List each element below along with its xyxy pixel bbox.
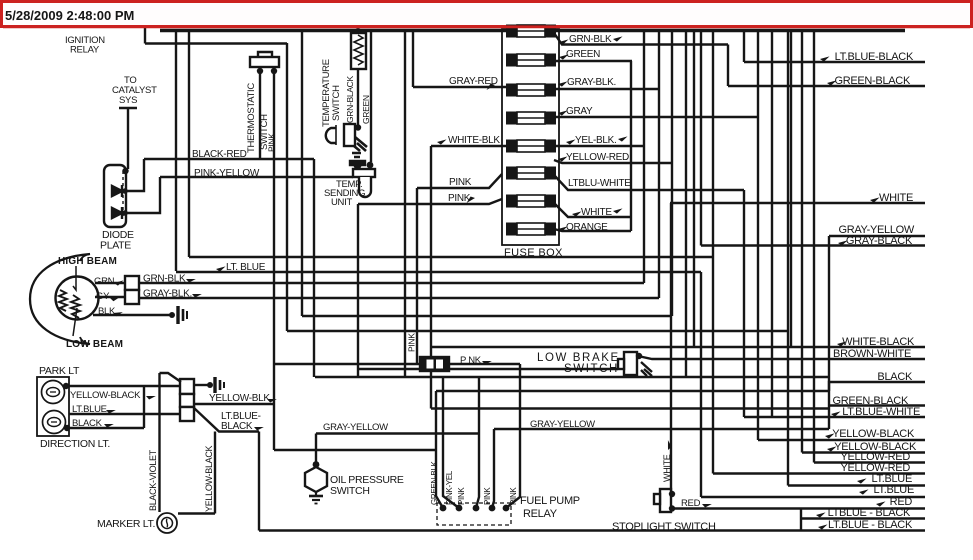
svg-text:SWITCH: SWITCH [331,85,342,121]
node: thermo pin L [257,68,263,74]
svg-text:FUSE BOX: FUSE BOX [504,247,563,259]
svg-text:GRAY-YELLOW: GRAY-YELLOW [323,422,388,433]
svg-text:PINK: PINK [509,487,518,505]
wire: V814 trunk to YELLOW-RED1 [813,31,815,463]
svg-text:GREEN-BLK: GREEN-BLK [430,461,439,505]
node: park lamp dot [63,383,69,389]
svg-text:BROWN-WHITE: BROWN-WHITE [833,348,911,360]
svg-text:GRAY: GRAY [566,106,593,117]
oil pressure switch hexagon [305,467,327,492]
svg-text:BLACK-VIOLET: BLACK-VIOLET [148,449,158,511]
fuse F6 [506,167,556,180]
temperature switch body [344,124,355,146]
wire: V479 relay riser [476,377,479,508]
wire: LT.BLUE park lead [69,413,180,415]
label: ORANGE fuse [558,226,568,231]
wire: oil switch stub [315,434,317,468]
svg-text:WHITE-BLACK: WHITE-BLACK [842,336,915,348]
wire: V287 down to bus line331 [286,43,288,331]
marker lamp [157,513,177,533]
svg-text:PINK: PINK [449,177,472,188]
wire: V744b drop to LT.BLUE-WHITE [743,190,745,417]
svg-text:SYS: SYS [119,95,137,106]
ground: park [213,377,216,393]
wire: BLACK right line with jog [829,382,925,391]
wire: GREEN-BLACK right line [728,85,925,87]
svg-text:GRAY-YELLOW: GRAY-YELLOW [530,419,595,430]
wire: V431 WHITE-BLK drop [430,146,432,409]
ground: headlamp [176,306,179,324]
wire: GRAY-YELLOW mid line y429 [494,428,829,430]
svg-text:MARKER LT.: MARKER LT. [97,518,155,530]
label: GRN-BLK fuse [559,39,569,44]
wire: resistor to switch [357,69,359,125]
wire: V413 gray-red riser [412,31,414,87]
wire: GRAY-BLK fuse line [554,88,659,90]
wire: GRAY-BLK line [139,297,659,299]
svg-text:SWITCH: SWITCH [330,485,370,497]
label: GRAY fuse [558,110,568,115]
wire: ORANGE fuse line [554,229,631,231]
temp sending unit cap [350,161,365,165]
node: relay pins [440,505,447,512]
wire: YELLOW-BLACK2 right line [802,451,925,453]
wire: PINK2 line y204 [358,199,502,204]
svg-text:WHITE-BLK: WHITE-BLK [448,135,500,146]
thermostatic switch body [250,57,279,67]
wire: V189 trunk [188,31,190,257]
wire: LT.BLUE2 right line [701,496,925,498]
timestamp header box [2,2,972,27]
wire: V315 BLACK-RED drop to line377 [313,159,315,377]
svg-text:GRAY-BLK.: GRAY-BLK. [567,77,616,88]
svg-text:PARK LT: PARK LT [39,365,80,377]
wire: BLACK-VIOLET jog to connector [160,373,182,382]
label: YELLOW-BLACK right2 [827,446,837,451]
wire: V758 trunk to YELLOW-BLACK1 [757,31,759,440]
wire: ignition relay drop [144,28,146,44]
wire: horizontal y43 to V287 [145,42,287,44]
svg-text:GRN-BLACK: GRN-BLACK [345,75,355,123]
park lamp [42,381,65,404]
svg-text:RED: RED [681,498,701,509]
dashed internal link [122,171,124,218]
wire: GRAY-YELLOW right label line [829,235,925,237]
splice connector [420,357,449,371]
fuse F3 [506,84,556,97]
svg-text:LT.BLUE: LT.BLUE [72,404,107,415]
fuse box outline [502,29,559,245]
node: temp unit right pin [367,162,374,169]
label: GREEN-BLACK right [827,80,837,85]
svg-text:GRN-BLK: GRN-BLK [569,34,612,45]
svg-text:LT. BLUE: LT. BLUE [226,262,266,273]
wire: LT.BLUE-WHITE right line [744,416,925,418]
label: GRAY-BLK fuse [558,81,568,86]
label: RED right [876,501,886,506]
fuse F4 [506,112,556,125]
svg-text:LT.BLUE: LT.BLUE [874,484,915,496]
wire: thermo left pin to BLACK-RED [259,71,261,159]
svg-text:FUEL PUMP: FUEL PUMP [520,495,580,507]
label: WHITE fuse [572,211,582,216]
diode plate outline [104,165,126,227]
svg-text:LTBLUE - BLACK: LTBLUE - BLACK [828,507,911,519]
svg-text:SWITCH: SWITCH [564,363,619,375]
wire: WHITE-BLACK long line y347 [431,346,925,348]
svg-text:WHITE: WHITE [581,207,612,218]
wire: V443 relay riser [443,377,459,508]
node: diode plate top [122,168,128,174]
wire: V772 trunk [771,31,773,417]
wire: PINK1 line y188 [417,174,502,188]
wire: PINK trunk V274 full drop [273,71,275,450]
wire: V520 drop to relay [506,364,520,508]
wire: V176 trunk [175,31,177,271]
svg-text:PINK: PINK [407,333,417,352]
wire: GREEN fuse line [554,60,632,62]
wire: V144 link [143,386,145,428]
wire: V686 trunk [685,31,687,377]
wire: V713 trunk down to YELLOW-RED2 [712,31,714,474]
wire: marker bottom link [178,512,215,514]
wire: line391 [436,390,829,392]
wire: LTBLUE-BLACK1 right line [801,517,925,519]
label: YELLOW-BLACK right1 [825,433,835,438]
fuse F8 [506,223,556,236]
wire: V417 PINK drop [416,188,418,364]
thermostatic switch cap [258,52,272,58]
ground: oil switch [315,492,317,495]
wire: BLACK-VIOLET drop [158,373,160,512]
svg-text:STOPLIGHT SWITCH: STOPLIGHT SWITCH [612,521,716,533]
wire: V259 drop to bottom bus [258,432,260,531]
wire: PINK-YELLOW line [160,176,353,178]
wire: catalyst lead cap [119,107,137,109]
wire: V405 trunk [404,31,406,377]
wire: V694 trunk [693,31,695,347]
svg-text:LTBLU-WHITE: LTBLU-WHITE [568,178,631,189]
svg-text:LT.BLUE - BLACK: LT.BLUE - BLACK [828,519,913,531]
label: LTBLUE-BLACK right1 [816,512,826,517]
svg-text:YELLOW-BLACK: YELLOW-BLACK [832,428,915,440]
svg-text:THERMOSTATIC: THERMOSTATIC [246,83,257,153]
red header bottom border overlay [3,25,970,28]
brake switch hatch [641,362,652,376]
wire: splice to V520 [449,363,520,365]
node: ground dot [169,312,175,318]
temp switch flash marks [354,137,367,151]
svg-text:YELLOW-BLACK: YELLOW-BLACK [204,445,214,512]
wire: GRAY-RED line [413,86,506,88]
svg-text:GREEN: GREEN [361,95,371,124]
wire: top supply bus [160,29,905,32]
svg-text:RELAY: RELAY [523,508,558,520]
fuse F1 [506,25,556,38]
label: GREEN fuse [559,54,569,59]
wire: oil pressure feed line y450 [274,449,436,451]
node: oil switch dot [313,461,320,468]
label: LT.BLUE-WHITE right [831,411,841,416]
svg-text:BLACK: BLACK [72,418,103,429]
temp sending unit bulb [359,177,371,197]
fuse F5 [506,140,556,153]
wire: line377 long bus [315,376,829,378]
svg-text:GREEN-BLACK: GREEN-BLACK [834,75,911,87]
svg-text:YELLOW-BLACK: YELLOW-BLACK [70,390,141,401]
wire: V358b PINK2 drop [357,204,359,377]
wire: V701b LT.BLUE drop to LT.BLUE2 [700,272,702,497]
temperature switch bulb [326,128,336,143]
fuse F7 [506,195,556,208]
wire: V371 from bus to unit pin [370,31,372,162]
wire: line y316 [302,315,672,317]
wire: splice line y364 [274,363,420,365]
label: WHITE right [870,197,880,202]
wire: LTBLU-WHITE fuse line [554,175,744,190]
wire: V302 trunk [301,31,303,316]
wire: WHITE-BLACK lead from brake area [638,356,925,359]
wire: V791 trunk [790,31,792,347]
wire: GY lead [95,296,125,298]
wire: YELLOW-RED2 line [713,472,925,474]
svg-text:GRN: GRN [94,276,115,287]
svg-text:WHITE: WHITE [879,192,913,204]
wire: BLACK park lead [67,427,144,429]
label: LT.BLUE-BLACK right2 [818,524,828,529]
svg-text:PINK: PINK [483,487,492,505]
svg-text:HIGH BEAM: HIGH BEAM [58,256,117,267]
svg-text:RELAY: RELAY [70,45,100,56]
low beam pointer [73,308,77,336]
wire: line y257 [189,256,713,258]
headlamp bulb [56,277,99,320]
label: GRAY-BLACK right [838,240,848,245]
svg-text:UNIT: UNIT [331,197,352,208]
wire: BLACK-RED line [144,158,314,160]
diode D2 [112,208,122,218]
svg-text:LT.BLUE-WHITE: LT.BLUE-WHITE [842,406,920,418]
svg-text:GY: GY [96,291,110,302]
wire: GRAY fuse line [554,116,758,118]
wire: V632 drop [630,61,632,231]
wire: D2 to PINK-YELLOW riser [127,177,160,213]
wire: V494 relay riser [492,429,494,508]
park lamp box [37,377,69,436]
svg-text:BLACK-RED: BLACK-RED [192,149,247,160]
wire: long bus line331 [287,330,788,332]
wire: catalyst vertical [127,108,129,169]
svg-text:YEL-BLK.: YEL-BLK. [575,135,617,146]
wire: V672 trunk [671,31,673,316]
wire: V436 relay riser [436,391,443,508]
park connector blocks [180,379,194,394]
wire: BLK ground lead [93,314,172,316]
wire: GRN lead [95,282,125,284]
fuse F2 [506,54,556,67]
wire: V701a trunk to GRAY-BLACK [700,31,702,246]
svg-text:YELLOW-BLK: YELLOW-BLK [209,393,270,404]
wire: YEL-BLK fuse line [554,145,644,147]
node: resistor top dot [355,28,361,34]
svg-text:BLK: BLK [98,306,116,317]
wire: YELLOW-BLK output [194,403,274,405]
wire: V215 yellow-black drop [214,432,216,514]
wire: V801 red branch [800,509,802,531]
svg-text:WHITE: WHITE [662,454,672,482]
wire: YELLOW-RED fuse line [554,160,672,163]
wire: V802 trunk to YELLOW-BLACK2 [801,31,803,453]
wire: YELLOW-RED1 right line [814,461,925,463]
label: WHITE-BLACK right [837,341,847,346]
low brake switch body [624,352,637,375]
temp sending unit body [353,169,375,177]
wire: GRN-BLK line [139,282,644,284]
wire: bottom bus LTBLUE-BLACK2 [259,529,925,531]
node: stoplight bottom dot [669,505,675,511]
svg-text:LOW BEAM: LOW BEAM [66,339,123,350]
wire: V659 trunk GRAY-BLK headlamp riser [658,31,660,298]
label: LT.BLUE right1 [857,478,867,483]
svg-text:PLATE: PLATE [100,240,131,252]
svg-text:PINK-YEL: PINK-YEL [445,470,454,505]
high beam pointer [73,266,76,290]
direction lamp [43,411,66,434]
label: YEL-BLK fuse [566,139,576,144]
wire: LT.BLUE1 right line [788,484,925,486]
svg-text:DIRECTION LT.: DIRECTION LT. [40,438,110,450]
headlamp reflector [30,254,90,344]
svg-text:BLACK: BLACK [221,421,253,432]
wire: WHITE right line y203 [670,202,925,204]
wire: LT.BLUE line y272 [176,271,701,273]
svg-text:PINK: PINK [267,133,277,152]
wire: V644 trunk GRN-BLK headlamp riser [643,31,645,283]
svg-text:LT.BLUE-BLACK: LT.BLUE-BLACK [835,51,914,63]
wire: GRAY-YELLOW left line [316,432,479,434]
svg-text:PINK-YELLOW: PINK-YELLOW [194,168,260,179]
headlamp connector blocks [125,276,139,290]
wire: GRAY-BLACK right line [701,244,925,246]
svg-text:YELLOW-RED: YELLOW-RED [566,152,629,163]
svg-text:P NK: P NK [460,355,482,366]
node: stoplight top dot [669,491,675,497]
temperature switch resistor [351,33,366,69]
label: LT.BLUE right2 [859,489,869,494]
svg-text:GREEN: GREEN [566,49,600,60]
svg-text:GRN-BLK: GRN-BLK [143,274,186,285]
label: WHITE-BLK [437,139,447,144]
wire: brake switch feed y369 [358,368,618,370]
node: park ground dot [207,382,213,388]
node: direction lamp dot [64,425,70,431]
node: temp switch green dot [355,124,361,130]
wire: GREEN-BLACK2 right line [829,404,925,406]
diode D1 [112,186,122,196]
wire: D1 to BLACK-RED riser [127,159,144,191]
svg-text:GRAY-BLK.: GRAY-BLK. [143,289,192,300]
svg-text:BLACK: BLACK [877,371,913,383]
wire: V744a trunk to LT.BLUE-BLACK [743,31,745,62]
wire: YELLOW-BLACK1 right line [758,439,925,441]
stoplight switch body [660,489,671,512]
wire: YELLOW-BLACK park lead [66,385,180,387]
label: LT. BLUE [216,266,226,271]
wire: green-black west line y408.5 [431,407,829,409]
label: LT.BLUE-BLACK right [820,56,830,61]
wire: LT.BLUE-BLACK right line [744,61,925,63]
node: thermo pin R [271,68,277,74]
wire: GRN-BLK fuse line [554,33,728,45]
node: brake switch dot [636,353,642,359]
svg-text:5/28/2009 2:48:00 PM: 5/28/2009 2:48:00 PM [5,8,134,23]
svg-text:ORANGE: ORANGE [566,222,608,233]
wire: V671 stoplight white drop [670,203,672,494]
fuel pump relay dashed box [437,503,511,525]
wire: connector to ground [194,384,208,386]
wire: WHITE fuse line [554,203,631,217]
small bars [352,153,361,157]
wire: LT.BLUE-BLACK diagonal [194,408,259,432]
wire: V829 drop [828,236,830,429]
wire: RED line [672,507,925,509]
wire: WHITE-BLK fuse feed [431,145,506,147]
label: YELLOW-RED fuse [558,156,568,161]
svg-text:PINK: PINK [457,487,466,505]
svg-text:GRAY-BLACK: GRAY-BLACK [846,235,913,247]
wire: V788 trunk to LT.BLUE1 [787,31,789,486]
wire: V728 drop to GREEN-BLACK [727,45,729,87]
